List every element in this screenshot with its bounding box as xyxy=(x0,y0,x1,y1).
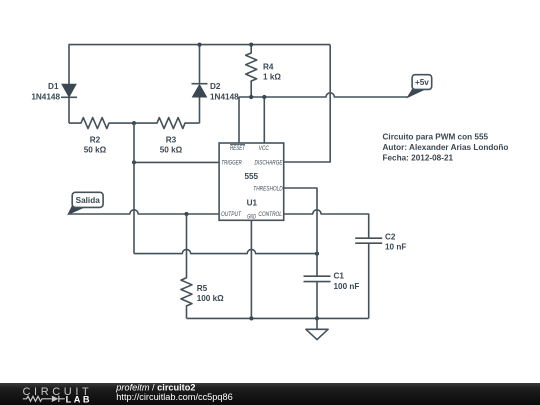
resistor R3 xyxy=(134,118,200,155)
svg-text:R2: R2 xyxy=(90,136,101,145)
node VCC junction xyxy=(262,95,266,99)
wire +5v rail with hop over discharge wire xyxy=(239,93,408,143)
capacitor C2 xyxy=(355,232,406,318)
svg-text:D2: D2 xyxy=(210,82,221,91)
svg-text:RESET: RESET xyxy=(230,146,246,152)
node C1 bottom junction xyxy=(315,316,319,320)
wire THRESHOLD xyxy=(284,188,317,276)
wire discharge to top rail xyxy=(284,45,330,162)
svg-text:10 nF: 10 nF xyxy=(385,243,406,252)
svg-text:50 kΩ: 50 kΩ xyxy=(160,146,183,155)
svg-text:R4: R4 xyxy=(263,62,274,71)
CircuitLab logo xyxy=(23,386,93,405)
footer text xyxy=(115,383,232,402)
wire OUTPUT with hop over left column xyxy=(68,210,219,214)
diode D2 xyxy=(192,45,240,124)
wire threshold rail with hops over R5 and GND wires xyxy=(134,249,317,253)
wire CONTROL with hop over threshold column xyxy=(284,210,368,238)
wire TRIGGER xyxy=(134,161,219,163)
svg-text:+5v: +5v xyxy=(415,78,429,87)
resistor R2 xyxy=(69,118,134,155)
svg-text:Circuito para PWM con 555: Circuito para PWM con 555 xyxy=(383,133,489,142)
node R4 bottom xyxy=(249,95,253,99)
svg-text:Autor: Alexander Arias Londoño: Autor: Alexander Arias Londoño xyxy=(383,143,509,152)
svg-text:U1: U1 xyxy=(247,198,258,207)
svg-text:R5: R5 xyxy=(197,284,208,293)
wire top rail xyxy=(69,45,330,124)
node threshold junction xyxy=(315,252,319,256)
svg-text:DISCHARGE: DISCHARGE xyxy=(255,160,284,166)
node GND bottom junction xyxy=(249,316,253,320)
svg-text:1N4148: 1N4148 xyxy=(31,93,60,102)
wire VCC xyxy=(263,97,265,143)
ground xyxy=(306,318,328,339)
svg-text:Fecha: 2012-08-21: Fecha: 2012-08-21 xyxy=(383,153,454,162)
svg-text:D1: D1 xyxy=(48,82,59,91)
wire GND pin xyxy=(250,220,252,318)
svg-text:OUTPUT: OUTPUT xyxy=(221,212,242,218)
Salida flag xyxy=(68,192,103,214)
svg-text:TRIGGER: TRIGGER xyxy=(221,160,242,166)
capacitor C1 xyxy=(304,272,360,319)
svg-text:1 kΩ: 1 kΩ xyxy=(263,72,281,81)
node trigger junction xyxy=(132,160,136,164)
svg-text:C2: C2 xyxy=(385,232,396,241)
title text block xyxy=(383,133,509,163)
svg-text:THRESHOLD: THRESHOLD xyxy=(253,187,283,193)
node D2 top rail xyxy=(197,43,201,47)
+5v flag xyxy=(408,75,432,98)
svg-text:VCC: VCC xyxy=(259,146,270,152)
diode D1 xyxy=(31,82,77,101)
resistor R5 xyxy=(181,214,224,318)
svg-text:C1: C1 xyxy=(334,272,345,281)
svg-text:LAB: LAB xyxy=(66,395,92,405)
svg-text:Salida: Salida xyxy=(76,196,101,205)
svg-text:50 kΩ: 50 kΩ xyxy=(84,146,107,155)
svg-text:CONTROL: CONTROL xyxy=(258,212,282,218)
op-amp 555 IC U1 box xyxy=(219,143,284,221)
wire left column down to threshold rail xyxy=(133,123,135,254)
node junction R2/R3/trigger column xyxy=(132,121,136,125)
svg-text:100 nF: 100 nF xyxy=(334,282,360,291)
resistor R4 xyxy=(246,43,282,98)
wire bottom rail xyxy=(187,317,369,319)
svg-text:R3: R3 xyxy=(166,136,177,145)
svg-text:100 kΩ: 100 kΩ xyxy=(197,294,224,303)
node R5 top junction xyxy=(184,212,188,216)
svg-text:1N4148: 1N4148 xyxy=(210,93,239,102)
svg-text:http://circuitlab.com/cc5pq86: http://circuitlab.com/cc5pq86 xyxy=(116,392,232,402)
footer bar xyxy=(0,383,540,405)
svg-text:555: 555 xyxy=(244,172,258,181)
svg-text:GND: GND xyxy=(247,215,256,221)
